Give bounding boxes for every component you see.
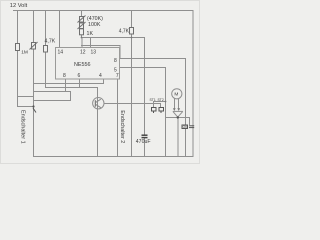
wire: column x33 (1M pot) full height (33, 10, 35, 157)
capacitor C1 470uF plates (142, 135, 148, 137)
svg-text:8: 8 (63, 73, 66, 79)
junction dots (81, 37, 83, 39)
svg-text:4,7K: 4,7K (119, 29, 130, 35)
svg-text:ST1: ST1 (150, 98, 156, 102)
svg-text:12: 12 (80, 50, 86, 56)
trimmer P2 (470K) top of stack (78, 16, 86, 23)
svg-text:NE556: NE556 (74, 62, 90, 68)
wire: cap column x144.5 from RC line down to cap (144, 37, 146, 135)
wire: column x17 from rail down to switch line (17, 10, 19, 107)
junction node on y117.5 (177, 116, 179, 118)
wire: bottom line y117.5 from pin5 column to x189 (165, 117, 189, 119)
trimmer P1 1M (x33 column) (30, 42, 38, 50)
transistor Q1 (93, 98, 104, 109)
svg-text:Endschalter 2: Endschalter 2 (119, 110, 125, 143)
svg-text:14: 14 (58, 50, 64, 56)
wire: stub down to connector box1 (153, 101, 155, 108)
bottom-right component block (182, 125, 188, 129)
wire: rung y91.5 (33, 91, 70, 93)
wire: pin5 output wire y67.5 (120, 67, 166, 69)
svg-text:12 Volt: 12 Volt (10, 3, 28, 9)
wire: pot stack column x81.5 from rail through pots to RC line (81, 10, 83, 38)
svg-text:8: 8 (114, 58, 117, 64)
limit switch S1 (Endschalter 1) (32, 105, 36, 112)
wire: pin4 stub (103, 79, 105, 84)
wire: motor lead left (173, 99, 175, 110)
svg-text:4: 4 (99, 73, 102, 79)
svg-text:6: 6 (78, 73, 81, 79)
svg-text:1K: 1K (87, 31, 94, 37)
IC NE556 U1 body (56, 48, 120, 80)
wire: jog column x70 (70, 91, 72, 101)
wire: pin4 line y83.5 (33, 83, 103, 85)
wire: pin5 column down x165.5 to bottom rail (165, 67, 167, 157)
wire: 4.7K right column x131.5 full height (131, 10, 133, 157)
wire: pin14 column (59, 10, 61, 48)
wire: corner down x189 into component (189, 117, 191, 125)
wire: stub down to connector box2 (160, 103, 162, 108)
wire: pin7 column (Endschalter 2 net) to bottom rail (117, 79, 119, 157)
wire: switch feed line y106.5 (17, 106, 34, 108)
wire: 12V top rail (13, 10, 193, 12)
motor coupling bar (173, 111, 183, 117)
resistor R4 4,7K right (130, 28, 134, 35)
svg-text:13: 13 (91, 50, 97, 56)
svg-text:1M: 1M (21, 50, 28, 56)
wire: pin12/13 bus y45.5 (81, 45, 121, 47)
trimmer P3 100K (78, 22, 86, 29)
svg-text:7: 7 (116, 73, 119, 79)
svg-text:Endschalter 1: Endschalter 1 (19, 110, 25, 144)
wire: motor lead right (178, 99, 180, 110)
wire: pin13 riser (90, 38, 92, 49)
wire: component bottom to rail (185, 128, 187, 157)
wire: rung y100.5 (33, 100, 71, 102)
wire: pin8 stub down (65, 79, 67, 92)
wire: pin6 stub down (79, 79, 81, 88)
wire: trigger line y87.5 from x45 to transistor column (45, 87, 98, 89)
resistor R1 (x17 column) (16, 44, 20, 51)
svg-text:4,7K: 4,7K (45, 39, 56, 45)
wire: branch y101.5 from pin5 column to x153.5 (153, 101, 166, 103)
wire: RC line y37.5 from stack to cap column (81, 37, 145, 39)
wire: junction drop to bottom rail (177, 118, 179, 157)
connector box ST1 (152, 108, 157, 114)
wire: transistor column through to bottom rail (97, 87, 99, 157)
motor lead arrowheads (173, 108, 180, 111)
svg-text:470uF: 470uF (136, 139, 151, 145)
wire: bottom ground rail (33, 156, 194, 158)
small cap marks on right edge column (189, 126, 194, 128)
svg-text:ST2: ST2 (158, 98, 164, 102)
svg-text:100K: 100K (88, 22, 101, 28)
wire: cap column below cap to bottom rail (144, 138, 146, 157)
resistor R2 4,7K (x45 column) (44, 46, 48, 53)
motor M1 (172, 89, 182, 99)
wire: pin9 column down x185 to component (185, 58, 187, 125)
wire: right edge column from rail down to bottom rail (192, 10, 194, 157)
wire: pin9 output wire y58.5 (119, 58, 185, 60)
wire: column x45 (4.7K) from rail to trigger line (45, 10, 47, 88)
wire: transistor output line y103.5 (104, 103, 161, 105)
wire: pin12 riser (81, 38, 83, 49)
wire: rung y96.5 between x17 and x33 (17, 96, 34, 98)
resistor R3 1K (80, 29, 84, 35)
svg-text:M: M (174, 92, 178, 98)
connector box ST2 (159, 108, 164, 114)
wire: bus corner down to pin9 wire (119, 45, 121, 59)
